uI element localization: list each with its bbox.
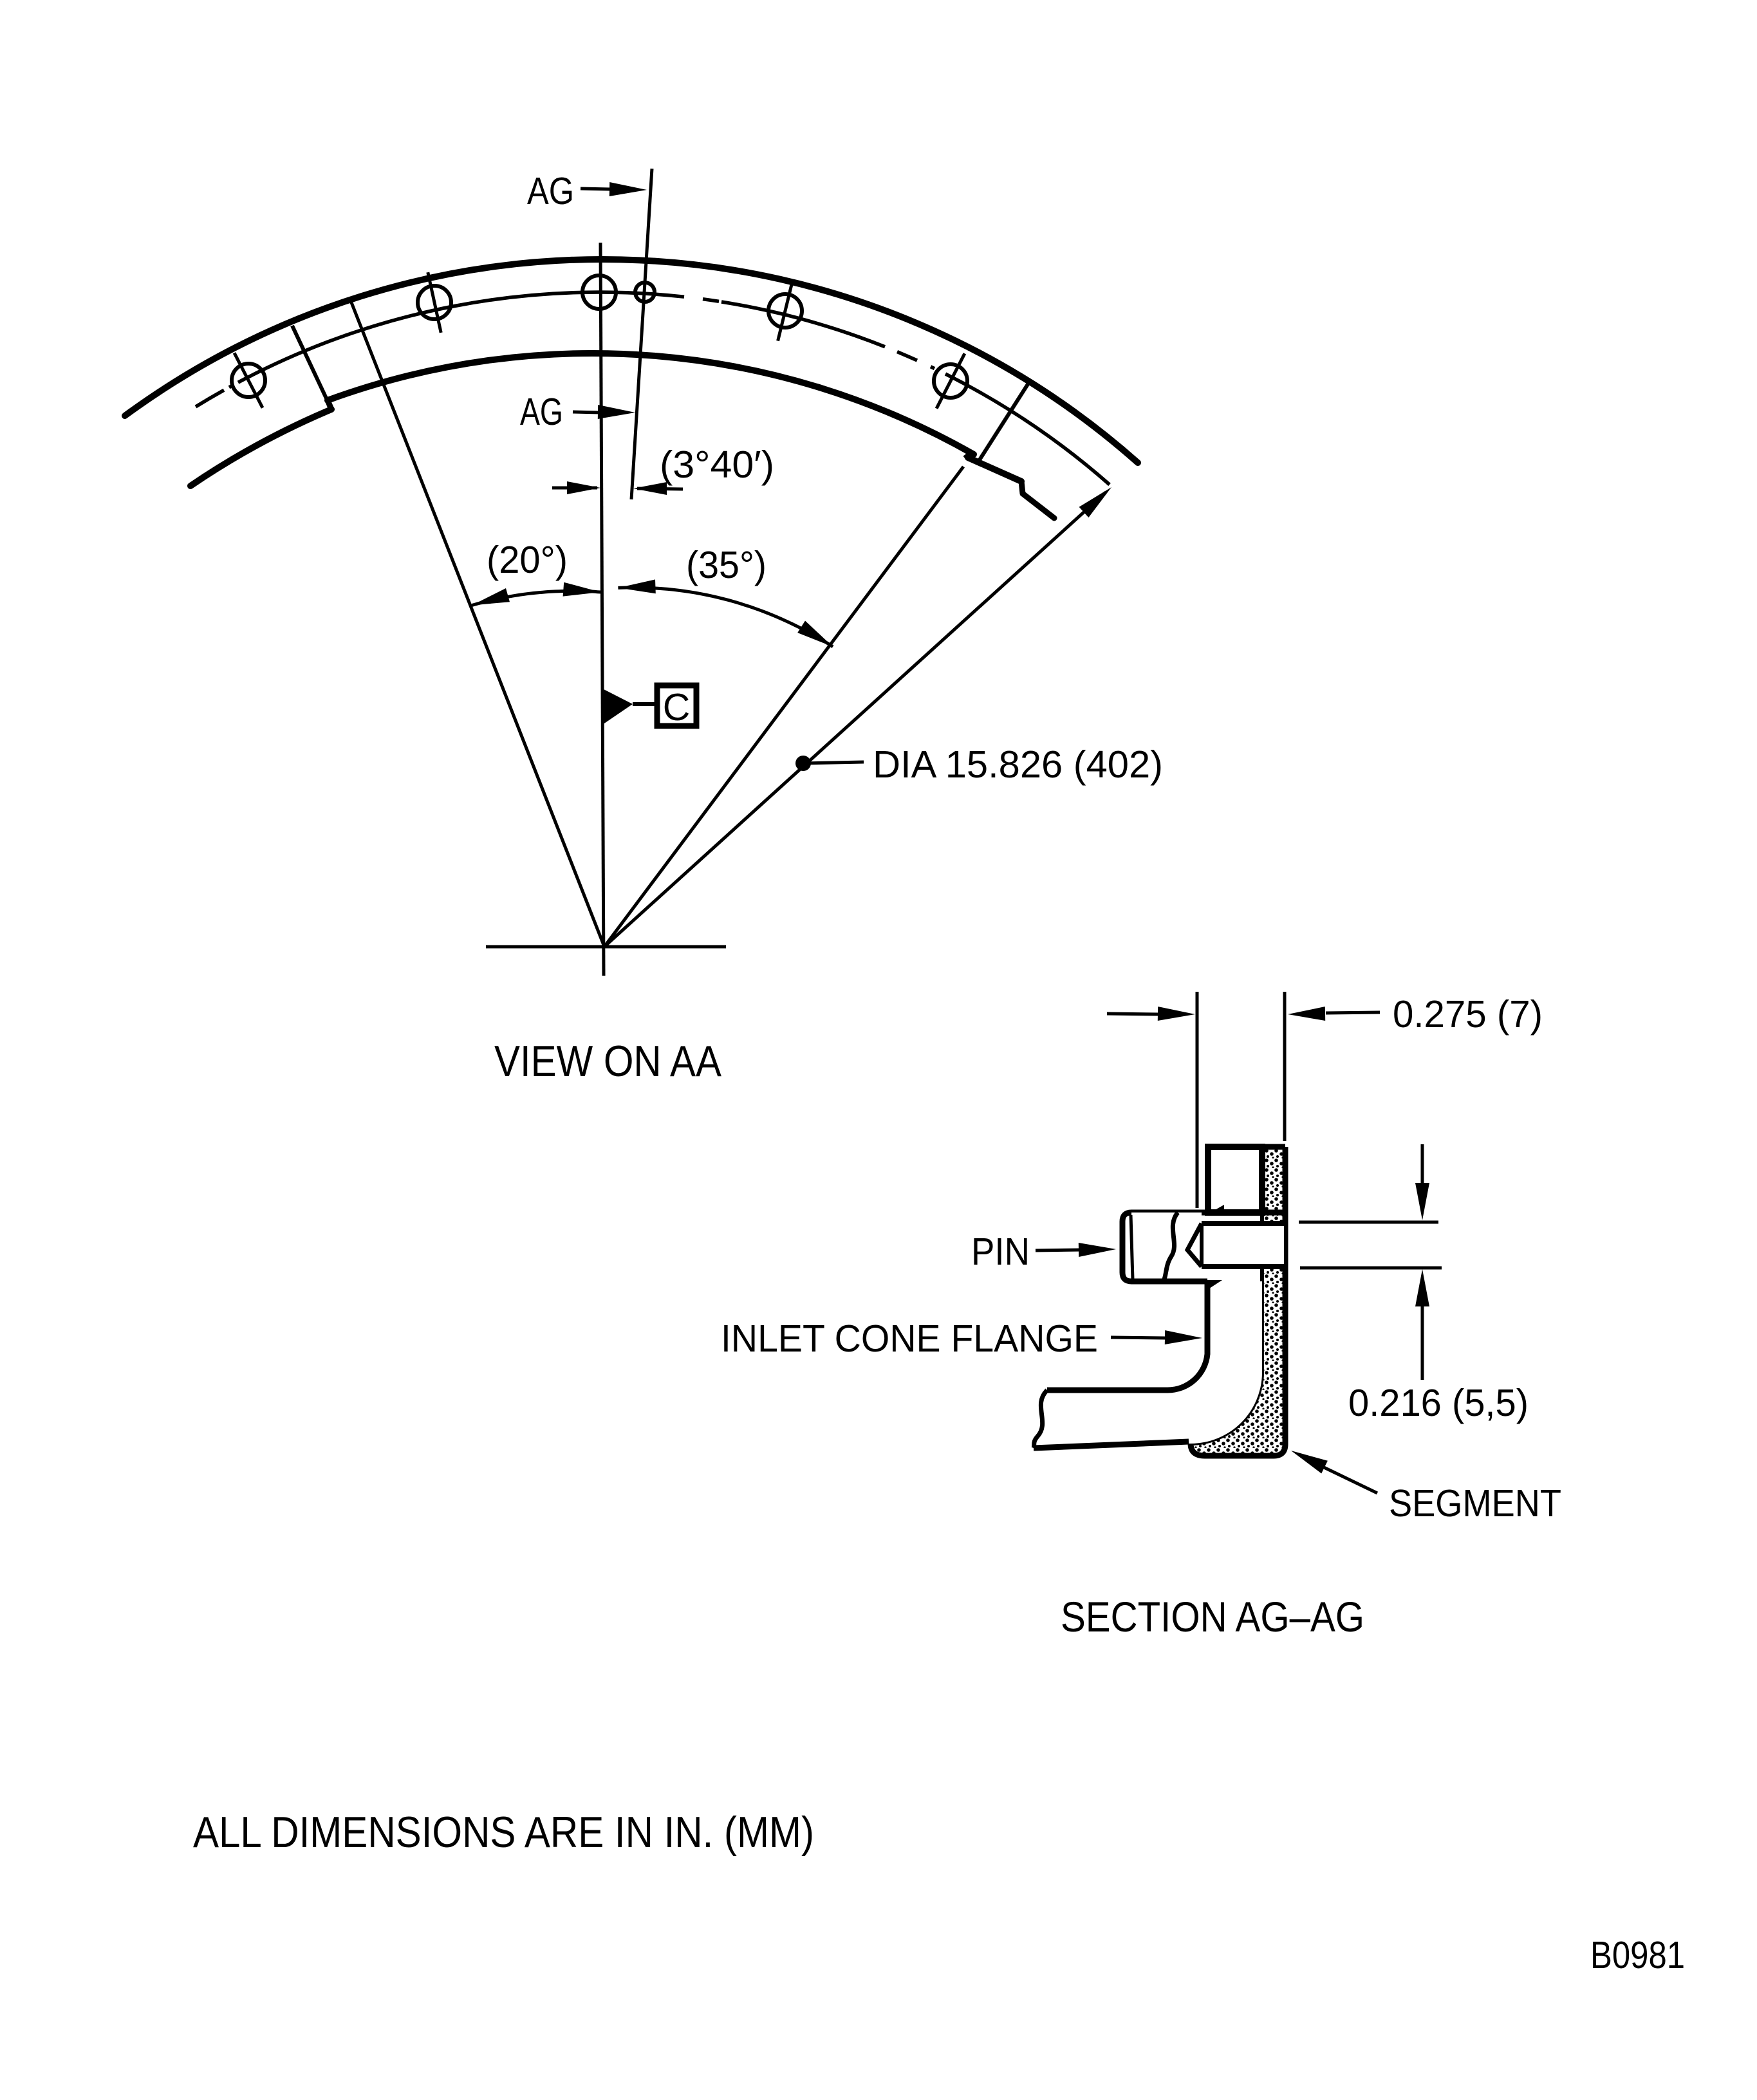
svg-text:0.216 (5,5): 0.216 (5,5)	[1348, 1382, 1529, 1424]
left segment inner edge arc	[191, 409, 331, 486]
PIN label arrow	[1036, 1250, 1081, 1250]
svg-text:B0981: B0981	[1590, 1934, 1685, 1976]
svg-text:ALL DIMENSIONS ARE IN IN. (MM): ALL DIMENSIONS ARE IN IN. (MM)	[193, 1808, 814, 1857]
svg-text:DIA 15.826 (402): DIA 15.826 (402)	[873, 743, 1163, 786]
right segment inner edge arc piece A	[968, 458, 1021, 481]
(3deg40min) dimension arrows	[552, 487, 597, 490]
0.216 dimension arrows	[1421, 1144, 1424, 1187]
(20 deg) dimension arc	[472, 591, 600, 605]
pin head	[1131, 1210, 1285, 1216]
left segment right edge line J1	[292, 326, 331, 409]
svg-text:INLET CONE FLANGE: INLET CONE FLANGE	[721, 1317, 1098, 1360]
AG top label arrow	[581, 189, 610, 189]
35 deg radial line	[604, 467, 963, 947]
svg-text:0.275 (7): 0.275 (7)	[1393, 993, 1543, 1036]
middle segment inner edge arc	[328, 353, 974, 454]
pin wavy break	[1164, 1213, 1178, 1281]
left joint step	[328, 400, 331, 409]
small pin hole on AG line	[635, 283, 655, 302]
svg-text:SEGMENT: SEGMENT	[1389, 1482, 1561, 1525]
svg-text:SECTION AG–AG: SECTION AG–AG	[1061, 1593, 1364, 1640]
vertical centerline	[600, 243, 604, 976]
svg-text:C: C	[663, 686, 691, 729]
horizontal line at apex	[486, 945, 726, 949]
svg-text:PIN: PIN	[971, 1231, 1030, 1273]
INLET CONE FLANGE label arrow	[1111, 1337, 1165, 1338]
AG mid label arrow	[573, 412, 600, 413]
segment part (stippled)	[1191, 1147, 1285, 1456]
svg-text:(20°): (20°)	[487, 539, 568, 581]
right segment inner edge arc piece B	[1023, 494, 1054, 518]
0.216 extension lines	[1299, 1221, 1438, 1224]
svg-text:(35°): (35°)	[686, 544, 767, 586]
section: right extension line	[1283, 992, 1287, 1141]
pin cone transition	[1187, 1223, 1202, 1267]
svg-text:AG: AG	[520, 391, 563, 433]
nut / bolt block	[1208, 1147, 1262, 1213]
AG section line	[631, 169, 652, 499]
section: left extension line	[1196, 992, 1199, 1208]
0.275 dimension arrows	[1107, 1014, 1158, 1014]
right segment left edge line K2	[979, 384, 1028, 461]
segment/flange interface fillet	[1191, 1268, 1262, 1444]
flange arm wavy break	[1034, 1390, 1047, 1448]
bolt holes on bolt circle	[232, 364, 265, 397]
fillet wedge flange/pin	[1207, 1280, 1222, 1290]
datum C flag triangle	[602, 689, 633, 725]
fillet wedge nut/pin	[1208, 1205, 1224, 1214]
SEGMENT label arrow	[1323, 1467, 1377, 1493]
DIA leader horizontal	[803, 762, 864, 763]
svg-text:AG: AG	[527, 170, 574, 212]
pin head face line	[1131, 1215, 1133, 1279]
right segment joint step	[1021, 481, 1023, 494]
svg-text:(3°40′): (3°40′)	[660, 443, 774, 486]
pin shank	[1202, 1223, 1284, 1267]
datum C box	[657, 685, 696, 726]
bolt circle centerline arc (dash-dot)	[196, 390, 224, 407]
20 deg radial line	[351, 302, 604, 947]
flange ring outer arc	[125, 259, 1138, 463]
DIA leader radial line	[604, 492, 1106, 947]
svg-text:VIEW ON AA: VIEW ON AA	[494, 1037, 722, 1086]
(35 deg) dimension arc	[618, 588, 833, 647]
DIA leader dot	[795, 756, 811, 771]
inlet cone flange	[1034, 1281, 1262, 1448]
